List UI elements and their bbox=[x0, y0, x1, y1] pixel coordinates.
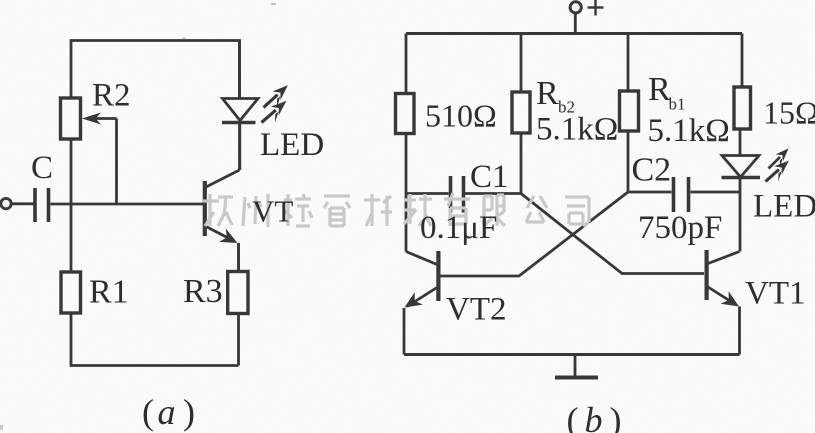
svg-text:LED: LED bbox=[260, 127, 324, 163]
svg-text:0.1μF: 0.1μF bbox=[420, 210, 497, 246]
svg-text:VT1: VT1 bbox=[745, 276, 806, 312]
svg-text:15Ω: 15Ω bbox=[763, 95, 815, 131]
svg-text:R3: R3 bbox=[183, 273, 223, 310]
svg-text:b: b bbox=[585, 400, 603, 433]
svg-text:5.1kΩ: 5.1kΩ bbox=[536, 112, 618, 148]
svg-text:5.1kΩ: 5.1kΩ bbox=[648, 113, 730, 149]
svg-text:750pF: 750pF bbox=[638, 210, 722, 246]
svg-text:): ) bbox=[183, 392, 195, 432]
svg-text:C2: C2 bbox=[632, 152, 672, 189]
svg-text:a: a bbox=[158, 392, 176, 432]
svg-text:R: R bbox=[536, 75, 559, 112]
svg-text:C: C bbox=[31, 150, 53, 186]
svg-text:R2: R2 bbox=[92, 78, 131, 114]
svg-text:LED: LED bbox=[753, 189, 815, 225]
svg-text:b1: b1 bbox=[669, 95, 686, 114]
svg-text:C1: C1 bbox=[470, 159, 509, 195]
svg-text:R1: R1 bbox=[89, 274, 129, 311]
svg-text:(: ( bbox=[567, 400, 579, 433]
svg-text:(: ( bbox=[142, 392, 154, 432]
svg-text:510Ω: 510Ω bbox=[425, 98, 497, 134]
svg-text:): ) bbox=[610, 400, 622, 433]
svg-text:VT: VT bbox=[252, 194, 293, 229]
svg-text:VT2: VT2 bbox=[446, 292, 507, 328]
